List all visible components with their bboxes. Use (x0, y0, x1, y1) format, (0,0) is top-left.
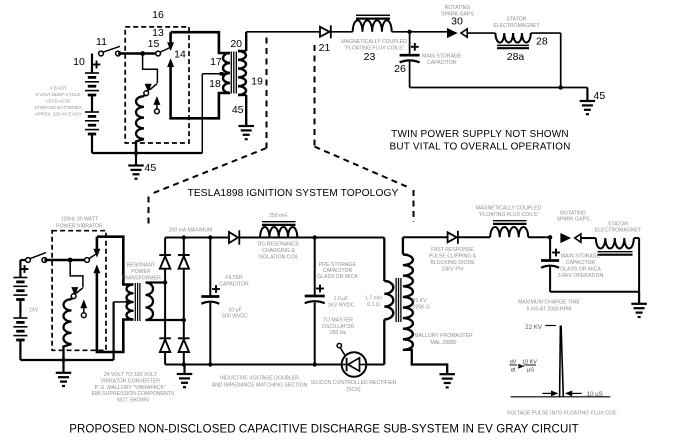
svg-text:45: 45 (232, 104, 244, 116)
svg-text:17: 17 (210, 56, 222, 68)
svg-text:GLASS OR MICA: GLASS OR MICA (317, 274, 358, 280)
svg-text:MALLORY PROMASTER: MALLORY PROMASTER (414, 333, 473, 339)
svg-text:ELECTROMAGNET: ELECTROMAGNET (595, 228, 642, 234)
svg-text:14: 14 (174, 49, 186, 61)
svg-text:EMI SUPRESSION COMPONENTS: EMI SUPRESSION COMPONENTS (92, 391, 175, 397)
svg-text:55 KV: 55 KV (413, 298, 428, 304)
svg-text:10 μS: 10 μS (587, 391, 603, 398)
svg-text:(SCR): (SCR) (346, 387, 361, 393)
svg-text:CAPACITOR: CAPACITOR (427, 60, 457, 66)
svg-text:P. G. MALLORY "VIBRAPACK": P. G. MALLORY "VIBRAPACK" (95, 385, 166, 391)
svg-text:CHARGING &: CHARGING & (262, 248, 295, 254)
svg-text:TESLA1898 IGNITION SYSTEM TOPO: TESLA1898 IGNITION SYSTEM TOPOLOGY (188, 188, 399, 199)
svg-text:TRANSFORMER: TRANSFORMER (121, 276, 161, 282)
svg-text:NOT SHOWN: NOT SHOWN (117, 398, 149, 404)
svg-text:PROPOSED NON-DISCLOSED CAPACIT: PROPOSED NON-DISCLOSED CAPACITIVE DISCHA… (69, 424, 579, 436)
svg-text:500 WVDC: 500 WVDC (222, 314, 248, 320)
svg-text:24V: 24V (29, 308, 39, 314)
svg-text:18: 18 (209, 78, 221, 90)
svg-text:VOLTAGE PULSE INTO FLOATING FL: VOLTAGE PULSE INTO FLOATING FLUX COIL (507, 411, 617, 417)
svg-text:dt: dt (511, 368, 516, 374)
svg-text:"FLOATING FLUX COILS": "FLOATING FLUX COILS" (478, 212, 539, 218)
svg-text:MAIN STORAGE: MAIN STORAGE (422, 54, 462, 60)
svg-text:STATOR: STATOR (608, 221, 628, 227)
svg-text:20: 20 (230, 38, 242, 50)
svg-text:250 Hz: 250 Hz (330, 330, 347, 336)
svg-text:15: 15 (148, 38, 160, 50)
svg-text:STORAGE BATTERIES: STORAGE BATTERIES (34, 105, 82, 110)
svg-text:POWER: POWER (131, 269, 151, 275)
svg-text:16: 16 (152, 9, 164, 21)
svg-text:TO MASTER: TO MASTER (323, 318, 353, 324)
svg-text:MAXIMUM CHARGE TIME: MAXIMUM CHARGE TIME (518, 300, 580, 306)
svg-text:45: 45 (594, 90, 606, 102)
svg-text:VIBRATOR CONVERTER: VIBRATOR CONVERTER (101, 379, 161, 385)
svg-text:FILTER: FILTER (225, 275, 243, 281)
svg-text:μS: μS (527, 368, 534, 374)
svg-text:DC-RESONANCE: DC-RESONANCE (258, 242, 300, 248)
svg-text:SPARK GAPS: SPARK GAPS (557, 216, 590, 222)
svg-text:POWER VIBRATOR: POWER VIBRATOR (56, 223, 103, 229)
svg-text:22 KV: 22 KV (525, 324, 543, 331)
svg-text:250 mH: 250 mH (269, 213, 287, 219)
svg-text:PULSE CLIPPING &: PULSE CLIPPING & (429, 253, 477, 259)
svg-text:MAL 28880: MAL 28880 (430, 340, 456, 346)
svg-text:STATOR: STATOR (507, 17, 527, 23)
svg-text:6 VOLT DEEP-CYCLE: 6 VOLT DEEP-CYCLE (35, 92, 80, 97)
svg-text:26: 26 (394, 63, 406, 75)
svg-text:CAPACITOR: CAPACITOR (566, 260, 596, 266)
svg-text:MAGNETICALLY COUPLED: MAGNETICALLY COUPLED (341, 39, 407, 45)
svg-text:FAST RESPONSE: FAST RESPONSE (431, 247, 474, 253)
svg-text:15KV PIV: 15KV PIV (441, 266, 464, 272)
svg-text:MAIN STORAGE: MAIN STORAGE (561, 254, 601, 260)
svg-text:24 VOLT TO 320 VOLT: 24 VOLT TO 320 VOLT (104, 372, 158, 378)
svg-text:TWIN POWER SUPPLY NOT SHOWN: TWIN POWER SUPPLY NOT SHOWN (391, 129, 569, 140)
svg-text:325K Ω: 325K Ω (413, 305, 430, 311)
svg-text:23: 23 (364, 51, 376, 63)
svg-text:BLOCKING DIODE: BLOCKING DIODE (430, 260, 475, 266)
svg-text:4 EACH: 4 EACH (50, 85, 66, 90)
svg-text:APROX. 225 AH EACH: APROX. 225 AH EACH (35, 112, 82, 117)
svg-text:CAPACITOR: CAPACITOR (219, 282, 249, 288)
svg-text:1KV WVDC: 1KV WVDC (328, 302, 355, 308)
svg-text:0.1 Ω: 0.1 Ω (367, 302, 380, 308)
svg-text:LEAD-ACID: LEAD-ACID (46, 99, 71, 104)
svg-text:3-6KV OPERATION: 3-6KV OPERATION (558, 273, 604, 279)
svg-text:GLASS OR MICA: GLASS OR MICA (560, 267, 601, 273)
svg-text:28: 28 (536, 36, 548, 48)
svg-text:45: 45 (145, 162, 157, 174)
svg-text:11: 11 (96, 36, 107, 48)
svg-text:INDUCTIVE VOLTAGE DOUBLER: INDUCTIVE VOLTAGE DOUBLER (220, 376, 299, 382)
svg-text:200 mA MAXIMUM: 200 mA MAXIMUM (169, 228, 213, 234)
svg-text:19: 19 (251, 76, 263, 88)
svg-text:ISOLATION COIL: ISOLATION COIL (258, 255, 299, 261)
svg-text:ELECTROMAGNET: ELECTROMAGNET (493, 23, 540, 29)
svg-text:BUT VITAL TO OVERALL OPERATION: BUT VITAL TO OVERALL OPERATION (389, 142, 570, 153)
svg-text:10: 10 (73, 56, 85, 68)
svg-text:6 mS AT 3000 RPM: 6 mS AT 3000 RPM (527, 307, 572, 313)
svg-text:RESONANT: RESONANT (127, 263, 156, 269)
svg-text:1.7 mH: 1.7 mH (365, 296, 382, 302)
svg-text:MAGNETICALLY COUPLED: MAGNETICALLY COUPLED (476, 206, 542, 212)
svg-text:1.0 μF: 1.0 μF (334, 296, 349, 302)
svg-text:30: 30 (451, 16, 463, 28)
svg-text:ROTATING: ROTATING (445, 5, 471, 11)
svg-text:SILICON CONTROLLED RECTIFIER: SILICON CONTROLLED RECTIFIER (311, 380, 397, 386)
svg-text:21: 21 (319, 42, 331, 54)
svg-text:115Hz 30 WATT: 115Hz 30 WATT (61, 217, 99, 223)
svg-text:28a: 28a (507, 51, 525, 63)
svg-text:AND IMPEDANCE MATCHING SECTION: AND IMPEDANCE MATCHING SECTION (212, 383, 308, 389)
